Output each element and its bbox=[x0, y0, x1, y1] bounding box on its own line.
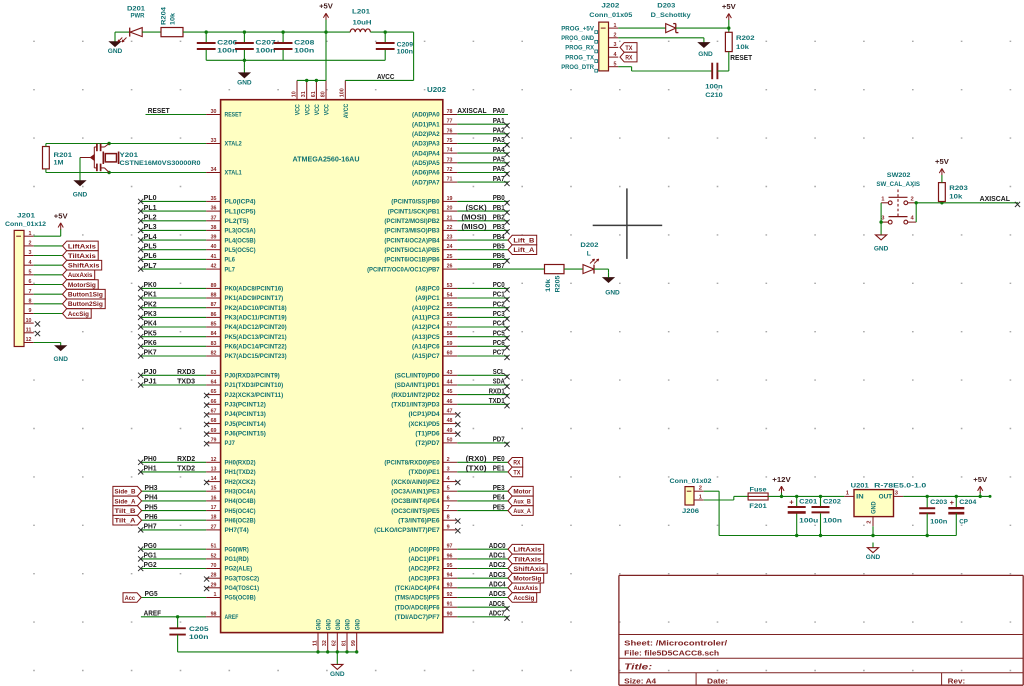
svg-text:PG4(TOSC1): PG4(TOSC1) bbox=[225, 586, 260, 592]
svg-text:+5V: +5V bbox=[319, 4, 333, 11]
svg-text:Side_A: Side_A bbox=[115, 498, 136, 505]
svg-text:Tilt_A: Tilt_A bbox=[115, 518, 136, 525]
svg-text:TXD2: TXD2 bbox=[177, 464, 195, 473]
svg-text:PL3: PL3 bbox=[144, 222, 157, 231]
svg-text:20: 20 bbox=[447, 206, 453, 212]
svg-text:80: 80 bbox=[320, 91, 326, 97]
svg-text:100n: 100n bbox=[255, 47, 275, 54]
svg-text:Button1Sig: Button1Sig bbox=[68, 292, 103, 299]
svg-text:PA4: PA4 bbox=[493, 145, 506, 154]
svg-text:PL1: PL1 bbox=[144, 203, 158, 212]
svg-text:37: 37 bbox=[211, 215, 217, 221]
svg-text:MotorSig: MotorSig bbox=[68, 282, 96, 289]
svg-text:ADC7: ADC7 bbox=[489, 609, 505, 618]
svg-text:PL4(OC5B): PL4(OC5B) bbox=[225, 238, 256, 244]
svg-text:63: 63 bbox=[211, 370, 218, 376]
svg-text:Conn_01x05: Conn_01x05 bbox=[589, 12, 632, 19]
svg-text:93: 93 bbox=[447, 582, 454, 588]
svg-text:VCC: VCC bbox=[305, 104, 311, 116]
svg-text:PC2: PC2 bbox=[493, 299, 505, 308]
svg-text:(PCINT1/SCK)PB1: (PCINT1/SCK)PB1 bbox=[388, 209, 440, 215]
svg-text:PH7: PH7 bbox=[144, 522, 157, 531]
svg-text:GND: GND bbox=[73, 192, 88, 199]
svg-text:PE1: PE1 bbox=[493, 464, 506, 473]
svg-text:Conn_01x02: Conn_01x02 bbox=[670, 478, 712, 485]
svg-text:41: 41 bbox=[211, 254, 218, 260]
svg-text:10: 10 bbox=[291, 91, 297, 97]
svg-text:RESET: RESET bbox=[225, 113, 242, 119]
svg-text:Side_B: Side_B bbox=[115, 489, 136, 496]
svg-text:PK5(ADC13/PCINT21): PK5(ADC13/PCINT21) bbox=[225, 335, 287, 341]
svg-text:AuxAxis: AuxAxis bbox=[68, 272, 93, 279]
svg-text:TiltAxis: TiltAxis bbox=[513, 556, 541, 563]
svg-text:Lift_A: Lift_A bbox=[513, 247, 534, 254]
svg-text:67: 67 bbox=[211, 409, 217, 415]
svg-text:PA3: PA3 bbox=[493, 135, 505, 144]
svg-text:(MOSI): (MOSI) bbox=[461, 213, 487, 222]
svg-text:C203: C203 bbox=[930, 499, 947, 506]
svg-text:1M: 1M bbox=[54, 160, 65, 167]
svg-text:PH3(OC4A): PH3(OC4A) bbox=[225, 489, 256, 495]
svg-text:19: 19 bbox=[447, 196, 454, 202]
svg-text:12: 12 bbox=[211, 457, 217, 463]
svg-text:(RX0): (RX0) bbox=[466, 454, 487, 463]
svg-text:(ADC3)PF3: (ADC3)PF3 bbox=[409, 576, 441, 582]
svg-text:Button2Sig: Button2Sig bbox=[68, 301, 103, 308]
svg-text:PK3(ADC11/PCINT19): PK3(ADC11/PCINT19) bbox=[225, 316, 287, 322]
svg-text:PG1(RD): PG1(RD) bbox=[225, 557, 249, 563]
svg-text:C209: C209 bbox=[397, 42, 414, 49]
svg-text:PL7: PL7 bbox=[225, 267, 236, 273]
svg-text:ADC4: ADC4 bbox=[489, 580, 506, 589]
svg-text:U202: U202 bbox=[427, 87, 446, 94]
svg-text:(T2)PD7: (T2)PD7 bbox=[415, 441, 440, 447]
svg-text:PH0(RXD2): PH0(RXD2) bbox=[225, 461, 256, 467]
svg-text:AVCC: AVCC bbox=[377, 72, 395, 81]
svg-text:TXD3: TXD3 bbox=[177, 377, 195, 386]
svg-text:PC6: PC6 bbox=[493, 338, 505, 347]
svg-text:43: 43 bbox=[447, 370, 454, 376]
svg-text:GND: GND bbox=[317, 619, 323, 631]
svg-text:PC7: PC7 bbox=[493, 348, 505, 357]
svg-text:(SCL/INT0)PD0: (SCL/INT0)PD0 bbox=[395, 374, 441, 380]
svg-text:TX: TX bbox=[513, 469, 520, 476]
svg-text:(TDO/ADC6)PF6: (TDO/ADC6)PF6 bbox=[395, 605, 441, 611]
svg-text:(AD6)PA6: (AD6)PA6 bbox=[412, 171, 440, 177]
svg-text:PB7: PB7 bbox=[493, 261, 505, 270]
svg-text:(A12)PC4: (A12)PC4 bbox=[412, 325, 440, 331]
svg-text:86: 86 bbox=[211, 312, 218, 318]
svg-text:PK7: PK7 bbox=[144, 348, 157, 357]
svg-text:PL1(ICP5): PL1(ICP5) bbox=[225, 209, 256, 215]
svg-text:PB6: PB6 bbox=[493, 251, 505, 260]
svg-text:78: 78 bbox=[447, 109, 454, 115]
svg-text:AccSig: AccSig bbox=[513, 595, 534, 602]
svg-text:PA1: PA1 bbox=[493, 116, 506, 125]
svg-text:PJ6(PCINT15): PJ6(PCINT15) bbox=[225, 432, 266, 438]
svg-text:(TXD1/INT3)PD3: (TXD1/INT3)PD3 bbox=[391, 403, 440, 409]
svg-text:PG2(ALE): PG2(ALE) bbox=[225, 567, 253, 573]
svg-text:+5V: +5V bbox=[935, 159, 949, 166]
svg-text:C201: C201 bbox=[799, 498, 817, 505]
svg-text:(PCINT7/OC0A/OC1C)PB7: (PCINT7/OC0A/OC1C)PB7 bbox=[367, 267, 440, 273]
svg-text:PE4: PE4 bbox=[493, 493, 506, 502]
svg-text:89: 89 bbox=[211, 283, 218, 289]
svg-text:C204: C204 bbox=[959, 499, 976, 506]
svg-text:57: 57 bbox=[447, 322, 453, 328]
svg-text:(ADC1)PF1: (ADC1)PF1 bbox=[409, 557, 441, 563]
svg-text:(AD3)PA3: (AD3)PA3 bbox=[412, 142, 440, 148]
svg-text:97: 97 bbox=[447, 544, 453, 550]
svg-text:L201: L201 bbox=[352, 9, 370, 16]
svg-text:PB5: PB5 bbox=[493, 241, 506, 250]
svg-text:21: 21 bbox=[447, 215, 454, 221]
svg-text:PC5: PC5 bbox=[493, 328, 506, 337]
svg-text:88: 88 bbox=[211, 293, 218, 299]
svg-text:+: + bbox=[950, 498, 955, 507]
svg-text:GND: GND bbox=[355, 619, 361, 631]
svg-text:(PCINT8/RXD0)PE0: (PCINT8/RXD0)PE0 bbox=[384, 461, 440, 467]
svg-text:+5V: +5V bbox=[973, 477, 987, 484]
svg-text:Aux_A: Aux_A bbox=[513, 508, 531, 515]
svg-text:(A9)PC1: (A9)PC1 bbox=[415, 296, 440, 302]
svg-text:C202: C202 bbox=[823, 498, 841, 505]
svg-text:(TX0): (TX0) bbox=[466, 464, 488, 473]
svg-text:(A13)PC5: (A13)PC5 bbox=[412, 335, 440, 341]
svg-text:PE0: PE0 bbox=[493, 454, 505, 463]
svg-text:15: 15 bbox=[211, 486, 218, 492]
svg-text:PJ4(PCINT13): PJ4(PCINT13) bbox=[225, 412, 266, 418]
svg-text:23: 23 bbox=[447, 235, 454, 241]
svg-text:7: 7 bbox=[447, 505, 450, 511]
svg-text:(OC3C/INT5)PE5: (OC3C/INT5)PE5 bbox=[391, 509, 440, 515]
svg-text:(PCINT3/MISO)PB3: (PCINT3/MISO)PB3 bbox=[384, 229, 440, 235]
svg-text:PK2(ADC10/PCINT18): PK2(ADC10/PCINT18) bbox=[225, 306, 287, 312]
svg-text:TX: TX bbox=[625, 45, 632, 52]
svg-text:+5V: +5V bbox=[722, 4, 736, 11]
svg-text:CP: CP bbox=[959, 518, 968, 525]
svg-text:PK5: PK5 bbox=[144, 328, 158, 337]
svg-text:(TMS/ADC5)PF5: (TMS/ADC5)PF5 bbox=[395, 596, 441, 602]
svg-text:PH4(OC4B): PH4(OC4B) bbox=[225, 499, 256, 505]
svg-text:PL4: PL4 bbox=[144, 232, 158, 241]
svg-text:(A14)PC6: (A14)PC6 bbox=[412, 345, 440, 351]
svg-text:ADC3: ADC3 bbox=[489, 570, 506, 579]
svg-text:VCC: VCC bbox=[296, 104, 302, 116]
svg-text:48: 48 bbox=[447, 418, 454, 424]
svg-text:PL6: PL6 bbox=[144, 251, 157, 260]
svg-text:Date:: Date: bbox=[707, 676, 728, 685]
svg-text:C210: C210 bbox=[705, 92, 723, 99]
svg-text:R203: R203 bbox=[949, 185, 968, 192]
svg-text:94: 94 bbox=[447, 573, 454, 579]
svg-text:PL0: PL0 bbox=[144, 193, 157, 202]
svg-text:OUT: OUT bbox=[879, 494, 893, 500]
svg-text:100n: 100n bbox=[397, 49, 413, 56]
svg-text:Tilt_B: Tilt_B bbox=[115, 508, 136, 515]
svg-text:11: 11 bbox=[312, 639, 318, 646]
svg-text:LiftAxis: LiftAxis bbox=[68, 243, 96, 250]
svg-text:PROG_+5V: PROG_+5V bbox=[561, 25, 594, 32]
svg-text:Sheet: /Microcontroler/: Sheet: /Microcontroler/ bbox=[624, 638, 727, 647]
svg-text:AXISCAL: AXISCAL bbox=[457, 106, 487, 115]
svg-text:PA7: PA7 bbox=[493, 174, 505, 183]
svg-text:R204: R204 bbox=[161, 7, 168, 25]
svg-text:73: 73 bbox=[447, 157, 454, 163]
svg-text:PG2: PG2 bbox=[144, 560, 157, 569]
svg-text:Lift_B: Lift_B bbox=[513, 238, 534, 245]
svg-text:100n: 100n bbox=[930, 518, 947, 525]
svg-text:RESET: RESET bbox=[730, 53, 752, 62]
svg-text:VCC: VCC bbox=[315, 104, 321, 116]
svg-text:45: 45 bbox=[447, 389, 454, 395]
svg-text:J201: J201 bbox=[17, 213, 35, 220]
svg-text:58: 58 bbox=[447, 331, 454, 337]
svg-text:PK1: PK1 bbox=[144, 290, 158, 299]
svg-text:(TCK/ADC4)PF4: (TCK/ADC4)PF4 bbox=[395, 586, 441, 592]
svg-text:PK6: PK6 bbox=[144, 338, 157, 347]
svg-text:R201: R201 bbox=[54, 152, 73, 159]
svg-text:U201: U201 bbox=[851, 483, 869, 490]
svg-text:(XCK1)PD5: (XCK1)PD5 bbox=[409, 422, 441, 428]
svg-text:PK7(ADC15/PCINT23): PK7(ADC15/PCINT23) bbox=[225, 354, 287, 360]
svg-text:(SCK): (SCK) bbox=[466, 203, 487, 212]
svg-text:2: 2 bbox=[29, 241, 32, 247]
svg-text:2: 2 bbox=[447, 457, 450, 463]
svg-text:R202: R202 bbox=[736, 35, 755, 42]
svg-text:PG0(WR): PG0(WR) bbox=[225, 547, 249, 553]
svg-text:59: 59 bbox=[447, 341, 454, 347]
svg-text:(PCINT2/MOSI)PB2: (PCINT2/MOSI)PB2 bbox=[384, 219, 440, 225]
svg-text:38: 38 bbox=[211, 225, 218, 231]
svg-text:AuxAxis: AuxAxis bbox=[513, 585, 538, 592]
svg-text:96: 96 bbox=[447, 553, 454, 559]
svg-text:56: 56 bbox=[447, 312, 454, 318]
svg-text:Conn_01x12: Conn_01x12 bbox=[5, 221, 46, 228]
svg-text:34: 34 bbox=[211, 167, 218, 173]
svg-text:66: 66 bbox=[211, 399, 218, 405]
svg-text:IN: IN bbox=[856, 494, 864, 500]
svg-text:AREF: AREF bbox=[225, 615, 239, 621]
svg-text:AXISCAL: AXISCAL bbox=[980, 194, 1011, 203]
svg-text:90: 90 bbox=[447, 611, 453, 617]
svg-text:GND: GND bbox=[108, 48, 123, 55]
svg-text:PK0: PK0 bbox=[144, 280, 157, 289]
svg-text:27: 27 bbox=[211, 524, 217, 530]
svg-text:61: 61 bbox=[311, 91, 317, 98]
svg-text:PROG_DTR: PROG_DTR bbox=[561, 64, 594, 71]
svg-text:PJ5(PCINT14): PJ5(PCINT14) bbox=[225, 422, 266, 428]
svg-text:36: 36 bbox=[211, 206, 218, 212]
svg-text:69: 69 bbox=[211, 428, 218, 434]
svg-text:62: 62 bbox=[332, 640, 338, 646]
svg-text:39: 39 bbox=[211, 235, 218, 241]
svg-text:ADC6: ADC6 bbox=[489, 599, 505, 608]
svg-text:GND: GND bbox=[698, 51, 713, 58]
svg-text:PH5(OC4C): PH5(OC4C) bbox=[225, 509, 256, 515]
svg-text:XTAL1: XTAL1 bbox=[225, 171, 243, 177]
svg-text:35: 35 bbox=[211, 196, 218, 202]
svg-text:PROG_TX: PROG_TX bbox=[565, 54, 594, 61]
svg-text:(AD5)PA5: (AD5)PA5 bbox=[412, 161, 440, 167]
svg-text:GND: GND bbox=[874, 246, 889, 253]
svg-text:PG5(OC0B): PG5(OC0B) bbox=[225, 596, 256, 602]
svg-text:(TXD0)PE1: (TXD0)PE1 bbox=[409, 470, 441, 476]
svg-text:82: 82 bbox=[211, 351, 217, 357]
svg-text:TXD1: TXD1 bbox=[489, 396, 506, 405]
svg-text:100n: 100n bbox=[823, 518, 842, 525]
svg-text:PROG_RX: PROG_RX bbox=[565, 45, 594, 52]
svg-text:PB0: PB0 bbox=[493, 193, 505, 202]
svg-text:PG3(TOSC2): PG3(TOSC2) bbox=[225, 576, 260, 582]
svg-text:16: 16 bbox=[211, 495, 218, 501]
svg-text:R-78E5.0-1.0: R-78E5.0-1.0 bbox=[874, 483, 926, 490]
svg-text:PB3: PB3 bbox=[493, 222, 505, 231]
svg-text:14: 14 bbox=[211, 476, 218, 482]
svg-text:PB4: PB4 bbox=[493, 232, 506, 241]
svg-text:(RXD1/INT2)PD2: (RXD1/INT2)PD2 bbox=[391, 393, 440, 399]
svg-text:PJ7: PJ7 bbox=[225, 441, 236, 447]
svg-text:VCC: VCC bbox=[325, 104, 331, 116]
svg-text:72: 72 bbox=[447, 167, 453, 173]
svg-text:100n: 100n bbox=[217, 47, 237, 54]
svg-text:(T3/INT6)PE6: (T3/INT6)PE6 bbox=[398, 518, 440, 524]
svg-text:PA6: PA6 bbox=[493, 164, 505, 173]
svg-text:54: 54 bbox=[447, 293, 454, 299]
svg-text:(OC3B/INT4)PE4: (OC3B/INT4)PE4 bbox=[391, 499, 440, 505]
svg-text:51: 51 bbox=[211, 544, 218, 550]
svg-text:10k: 10k bbox=[949, 194, 962, 201]
svg-text:F201: F201 bbox=[749, 503, 767, 510]
svg-text:79: 79 bbox=[211, 437, 218, 443]
svg-text:42: 42 bbox=[211, 264, 217, 270]
svg-text:(TDI/ADC7)PF7: (TDI/ADC7)PF7 bbox=[395, 615, 441, 621]
svg-text:74: 74 bbox=[447, 148, 454, 154]
svg-text:10uH: 10uH bbox=[353, 20, 372, 27]
svg-text:D202: D202 bbox=[580, 242, 598, 249]
svg-text:C208: C208 bbox=[294, 40, 315, 47]
svg-text:(OC3A/AIN1)PE3: (OC3A/AIN1)PE3 bbox=[391, 489, 440, 495]
svg-text:(AD0)PA0: (AD0)PA0 bbox=[412, 113, 440, 119]
svg-text:(PCINT4/OC2A)PB4: (PCINT4/OC2A)PB4 bbox=[384, 238, 440, 244]
svg-text:XTAL2: XTAL2 bbox=[225, 142, 243, 148]
svg-text:PK0(ADC8/PCINT16): PK0(ADC8/PCINT16) bbox=[225, 287, 284, 293]
svg-text:PG1: PG1 bbox=[144, 551, 158, 560]
svg-text:PL7: PL7 bbox=[144, 261, 157, 270]
svg-text:10k: 10k bbox=[545, 279, 552, 292]
svg-text:PL2(T5): PL2(T5) bbox=[225, 219, 249, 225]
svg-text:PH2(XCK2): PH2(XCK2) bbox=[225, 480, 256, 486]
svg-text:GND: GND bbox=[605, 290, 620, 297]
svg-text:GND: GND bbox=[336, 619, 342, 631]
svg-text:PH5: PH5 bbox=[145, 502, 159, 511]
svg-text:26: 26 bbox=[447, 264, 454, 270]
svg-text:84: 84 bbox=[211, 331, 218, 337]
svg-text:PJ1: PJ1 bbox=[144, 377, 158, 386]
svg-text:65: 65 bbox=[211, 389, 218, 395]
svg-text:PE5: PE5 bbox=[493, 502, 506, 511]
svg-text:28: 28 bbox=[211, 573, 218, 579]
svg-text:PJ0: PJ0 bbox=[144, 367, 157, 376]
svg-text:PE3: PE3 bbox=[493, 483, 505, 492]
svg-text:SCL: SCL bbox=[493, 367, 505, 376]
svg-text:55: 55 bbox=[447, 302, 454, 308]
svg-text:60: 60 bbox=[447, 351, 453, 357]
svg-text:30: 30 bbox=[211, 109, 217, 115]
svg-text:PH0: PH0 bbox=[144, 454, 157, 463]
svg-text:File: file5D5CACC8.sch: File: file5D5CACC8.sch bbox=[624, 649, 720, 658]
svg-text:10: 10 bbox=[26, 318, 32, 324]
svg-text:10k: 10k bbox=[170, 13, 177, 25]
svg-text:Size: A4: Size: A4 bbox=[624, 676, 657, 685]
svg-text:(A11)PC3: (A11)PC3 bbox=[412, 316, 440, 322]
svg-text:D201: D201 bbox=[127, 6, 145, 13]
svg-text:Title:: Title: bbox=[624, 661, 652, 671]
svg-text:Rev:: Rev: bbox=[948, 676, 966, 685]
svg-text:AccSig: AccSig bbox=[68, 311, 89, 318]
svg-text:GND: GND bbox=[330, 671, 345, 678]
svg-text:29: 29 bbox=[211, 582, 218, 588]
svg-text:SW202: SW202 bbox=[887, 172, 911, 179]
svg-text:25: 25 bbox=[447, 254, 454, 260]
svg-text:Motor: Motor bbox=[513, 489, 531, 496]
svg-text:68: 68 bbox=[211, 418, 218, 424]
svg-text:PB2: PB2 bbox=[493, 213, 505, 222]
svg-text:(AD4)PA4: (AD4)PA4 bbox=[412, 151, 440, 157]
svg-text:ADC1: ADC1 bbox=[489, 551, 506, 560]
svg-text:PG5: PG5 bbox=[145, 589, 159, 598]
svg-text:100n: 100n bbox=[189, 634, 209, 641]
svg-text:RXD1: RXD1 bbox=[489, 386, 506, 395]
svg-text:100: 100 bbox=[340, 88, 346, 97]
svg-text:C207: C207 bbox=[255, 40, 276, 47]
svg-text:PA2: PA2 bbox=[493, 126, 505, 135]
svg-text:C205: C205 bbox=[189, 626, 209, 633]
svg-text:GND: GND bbox=[346, 619, 352, 631]
svg-text:2: 2 bbox=[699, 486, 702, 492]
svg-text:PC3: PC3 bbox=[493, 309, 505, 318]
svg-text:76: 76 bbox=[447, 128, 454, 134]
svg-text:Fuse: Fuse bbox=[750, 487, 767, 494]
svg-text:(ADC0)PF0: (ADC0)PF0 bbox=[409, 547, 441, 553]
svg-text:PA0: PA0 bbox=[493, 106, 505, 115]
svg-text:PK4: PK4 bbox=[144, 319, 158, 328]
svg-text:PC1: PC1 bbox=[493, 290, 506, 299]
svg-text:PK1(ADC9/PCINT17): PK1(ADC9/PCINT17) bbox=[225, 296, 284, 302]
svg-text:(AD1)PA1: (AD1)PA1 bbox=[412, 122, 440, 128]
svg-text:83: 83 bbox=[211, 341, 218, 347]
svg-text:87: 87 bbox=[211, 302, 217, 308]
svg-text:100n: 100n bbox=[294, 47, 314, 54]
svg-text:(CLKO/ICP3/INT7)PE7: (CLKO/ICP3/INT7)PE7 bbox=[374, 528, 440, 534]
svg-text:ADC2: ADC2 bbox=[489, 560, 506, 569]
svg-text:77: 77 bbox=[447, 119, 453, 125]
svg-text:SW_CAL_AXIS: SW_CAL_AXIS bbox=[876, 181, 920, 188]
svg-text:7: 7 bbox=[29, 289, 32, 295]
svg-text:PK3: PK3 bbox=[144, 309, 157, 318]
svg-text:ShiftAxis: ShiftAxis bbox=[513, 566, 545, 573]
svg-text:GND: GND bbox=[872, 501, 878, 514]
svg-text:91: 91 bbox=[447, 602, 454, 608]
svg-text:PA5: PA5 bbox=[493, 155, 506, 164]
svg-text:SDA: SDA bbox=[493, 377, 505, 386]
svg-text:(SDA/INT1)PD1: (SDA/INT1)PD1 bbox=[395, 383, 441, 389]
svg-text:10k: 10k bbox=[736, 44, 749, 51]
svg-text:46: 46 bbox=[447, 399, 454, 405]
svg-text:PL2: PL2 bbox=[144, 213, 157, 222]
svg-text:(XCK0/AIN0)PE2: (XCK0/AIN0)PE2 bbox=[391, 480, 440, 486]
svg-text:RXD2: RXD2 bbox=[177, 454, 195, 463]
